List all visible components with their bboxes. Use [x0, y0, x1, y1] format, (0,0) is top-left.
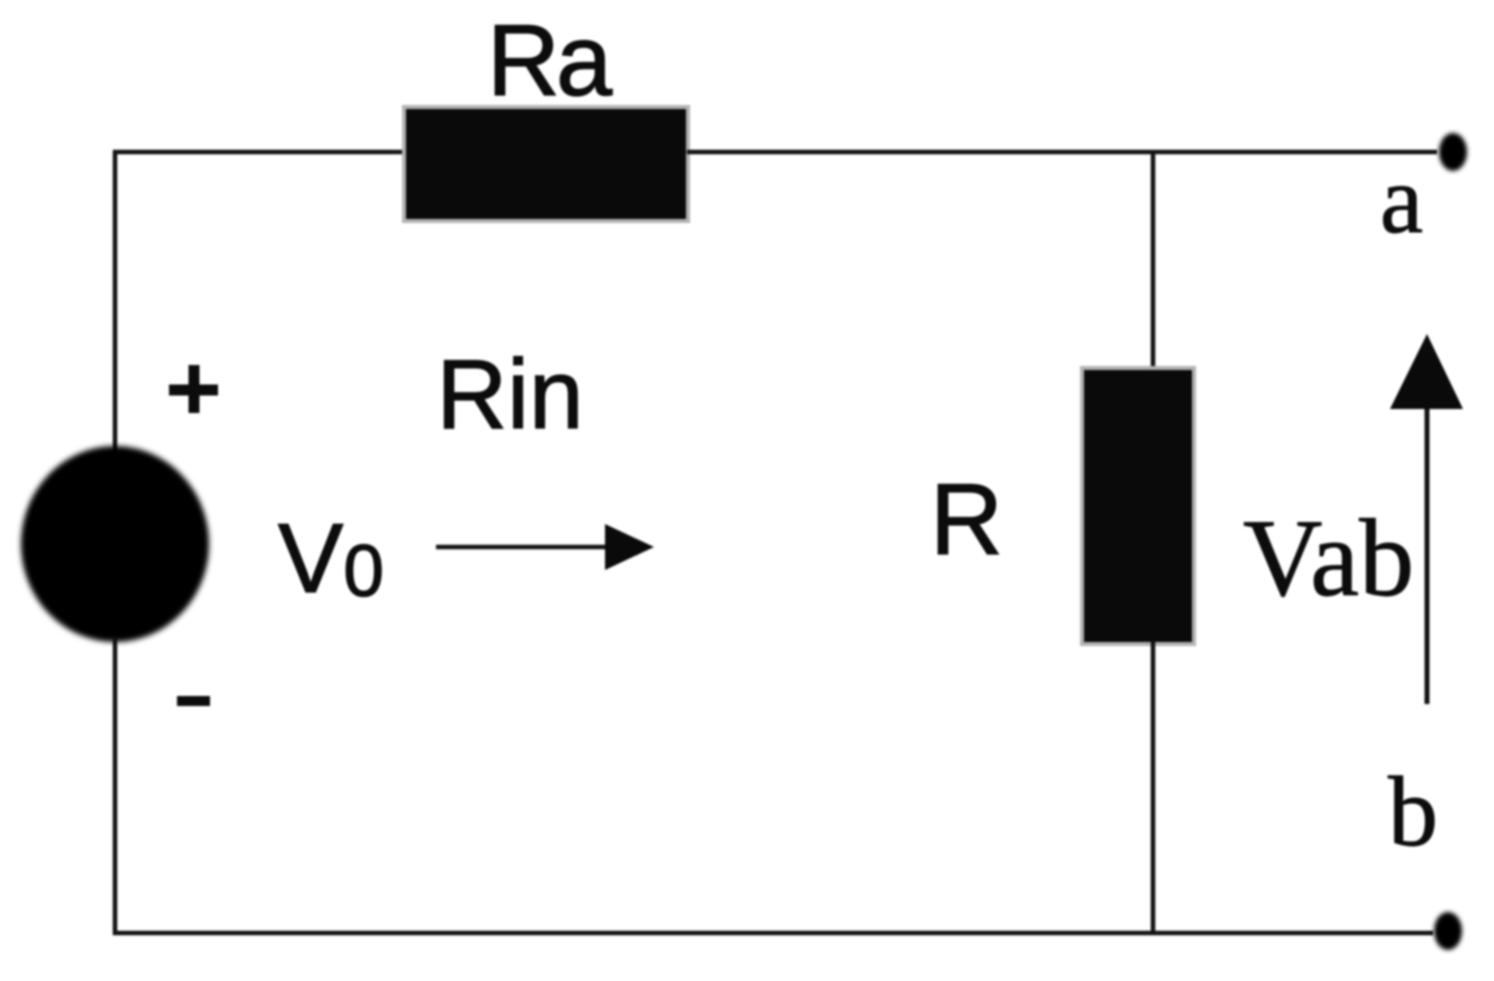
svg-text:Ra: Ra	[487, 5, 613, 117]
node b	[1434, 912, 1462, 950]
wire R branch upper	[1151, 152, 1156, 372]
wire top-right segment	[687, 150, 1437, 155]
wire top-left segment	[113, 150, 408, 155]
arrow Vab	[1390, 334, 1463, 704]
source V0	[21, 446, 209, 642]
svg-text:a: a	[1380, 146, 1423, 253]
svg-text:R: R	[930, 464, 1003, 576]
wire left vertical lower	[113, 638, 118, 935]
svg-text:b: b	[1388, 756, 1438, 867]
wire bottom	[113, 931, 1433, 936]
svg-text:Vab: Vab	[1243, 497, 1414, 619]
arrow current direction	[436, 524, 654, 570]
label minus	[177, 696, 210, 706]
svg-text:Rin: Rin	[436, 339, 583, 449]
resistor R	[1080, 366, 1196, 646]
wire R branch lower	[1151, 641, 1156, 933]
resistor Ra	[402, 105, 690, 223]
label +	[169, 365, 218, 413]
wire left vertical upper	[113, 150, 118, 452]
node a	[1439, 133, 1467, 171]
